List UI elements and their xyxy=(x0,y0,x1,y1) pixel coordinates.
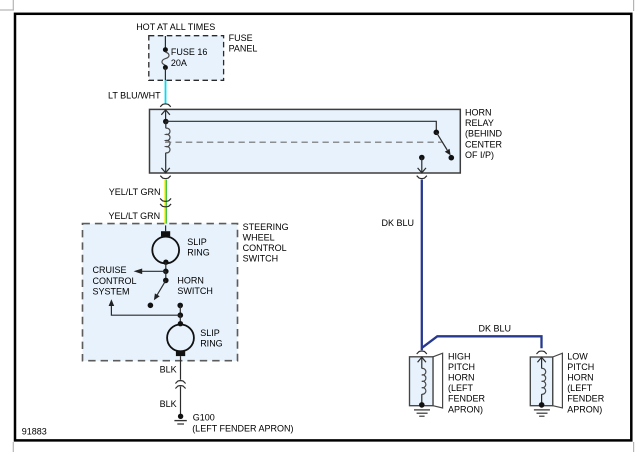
svg-text:LOW: LOW xyxy=(567,351,588,361)
low pitch horn coil xyxy=(542,368,546,394)
label HORN RELAY (BEHIND CENTER OF I/P) xyxy=(465,108,503,160)
inline connector C200 xyxy=(160,198,171,206)
svg-text:SWITCH: SWITCH xyxy=(243,254,279,264)
connector at low pitch horn (female) xyxy=(537,351,547,354)
svg-text:FUSE 16: FUSE 16 xyxy=(171,47,208,57)
relay switch pivot xyxy=(434,130,440,136)
low pitch horn body xyxy=(530,353,562,408)
wire to cruise control (arrow left) xyxy=(134,269,166,275)
svg-text:20A: 20A xyxy=(171,58,187,68)
svg-text:OF I/P): OF I/P) xyxy=(465,150,494,160)
svg-text:BLK: BLK xyxy=(160,399,177,409)
svg-text:DK BLU: DK BLU xyxy=(479,323,512,333)
svg-text:HIGH: HIGH xyxy=(448,351,471,361)
ground (high pitch horn) xyxy=(414,410,430,416)
svg-text:RING: RING xyxy=(200,338,223,348)
connector below relay coil (female) xyxy=(160,176,170,179)
high pitch horn body xyxy=(410,353,443,408)
relay switch blade xyxy=(436,132,450,155)
high pitch horn coil to ground xyxy=(421,394,423,403)
svg-text:PANEL: PANEL xyxy=(229,44,258,54)
svg-text:CRUISE: CRUISE xyxy=(93,265,127,275)
label FUSE PANEL xyxy=(229,33,258,54)
node below slip ring 1 xyxy=(163,260,168,265)
connector at relay pin (female, top) xyxy=(160,104,171,107)
svg-text:(LEFT: (LEFT xyxy=(567,383,593,393)
label SLIP RING (upper) xyxy=(187,237,210,258)
wire xyxy=(179,315,181,324)
steering wheel control switch box xyxy=(83,224,238,361)
svg-text:HORN: HORN xyxy=(567,373,594,383)
svg-text:APRON): APRON) xyxy=(567,404,602,414)
svg-text:RING: RING xyxy=(187,247,210,257)
relay coil xyxy=(165,122,167,129)
svg-text:YEL/LT GRN: YEL/LT GRN xyxy=(109,187,161,197)
label FUSE 16 20A xyxy=(171,47,208,68)
svg-text:HORN: HORN xyxy=(177,276,204,286)
node top of slip ring 2 xyxy=(178,321,183,326)
svg-text:BLK: BLK xyxy=(160,365,177,375)
wire xyxy=(165,271,167,280)
fuse panel box xyxy=(149,36,224,81)
svg-text:SWITCH: SWITCH xyxy=(177,286,213,296)
ground (low pitch horn) xyxy=(534,410,550,416)
svg-text:YEL/LT GRN: YEL/LT GRN xyxy=(109,211,161,221)
svg-text:FENDER: FENDER xyxy=(567,394,605,404)
svg-text:DK BLU: DK BLU xyxy=(382,218,415,228)
node relay common xyxy=(163,119,169,125)
horn switch blade xyxy=(154,280,166,300)
label CRUISE CONTROL SYSTEM xyxy=(93,265,137,296)
wire BLK (lower) xyxy=(180,387,182,415)
label HORN SWITCH xyxy=(177,276,213,297)
svg-text:CONTROL: CONTROL xyxy=(93,276,137,286)
low pitch horn ground node xyxy=(539,402,545,408)
svg-text:HORN: HORN xyxy=(465,108,492,118)
wire DK BLU (main vertical) xyxy=(421,180,423,351)
label STEERING WHEEL CONTROL SWITCH xyxy=(243,222,289,264)
slip ring 1 xyxy=(152,237,179,264)
svg-text:HOT AT ALL TIMES: HOT AT ALL TIMES xyxy=(136,22,215,32)
wire into slip ring xyxy=(165,225,167,231)
wire DK BLU branch to low pitch horn xyxy=(422,336,542,348)
svg-text:APRON): APRON) xyxy=(448,404,483,414)
inline connector in BLK wire xyxy=(175,381,185,389)
wire BLK (upper) xyxy=(180,356,182,380)
slip ring 1 contact xyxy=(161,231,170,236)
svg-text:PITCH: PITCH xyxy=(567,362,594,372)
label SLIP RING (lower) xyxy=(200,328,223,349)
relay switch contact xyxy=(449,155,455,161)
wire YEL/LT GRN xyxy=(165,180,166,225)
svg-text:91883: 91883 xyxy=(22,427,47,437)
low pitch horn coil to ground xyxy=(541,394,543,403)
wire xyxy=(165,262,167,271)
relay coil output arrow (male, to bottom edge) xyxy=(161,153,169,173)
svg-text:STEERING: STEERING xyxy=(243,222,289,232)
low pitch horn pin arrow xyxy=(537,357,545,368)
relay mechanical link (dashed) xyxy=(165,141,442,143)
slip ring 2 xyxy=(167,325,194,352)
high pitch horn pin arrow xyxy=(418,357,426,368)
svg-text:FUSE: FUSE xyxy=(229,33,253,43)
ground G100 xyxy=(174,414,186,424)
svg-text:PITCH: PITCH xyxy=(448,362,475,372)
connector at high pitch horn (female) xyxy=(417,351,427,354)
wire xyxy=(179,305,181,315)
relay output arrow (male, to bottom edge) xyxy=(418,158,426,173)
high pitch horn ground node xyxy=(419,402,425,408)
horn switch top contact xyxy=(163,278,169,284)
svg-text:(LEFT: (LEFT xyxy=(448,383,474,393)
svg-text:SYSTEM: SYSTEM xyxy=(93,286,130,296)
label LOW PITCH HORN (LEFT FENDER APRON) xyxy=(567,351,605,414)
svg-text:SLIP: SLIP xyxy=(187,237,207,247)
high pitch horn coil xyxy=(422,368,426,394)
connector below relay output (female) xyxy=(417,176,427,179)
svg-text:SLIP: SLIP xyxy=(200,328,220,338)
horn relay box xyxy=(150,109,461,173)
svg-text:LT BLU/WHT: LT BLU/WHT xyxy=(108,90,161,100)
slip ring 2 contact xyxy=(176,351,185,356)
svg-text:CONTROL: CONTROL xyxy=(243,243,287,253)
svg-text:RELAY: RELAY xyxy=(465,118,494,128)
wire LT BLU/WHT xyxy=(165,80,167,104)
svg-text:HORN: HORN xyxy=(448,373,475,383)
fuse F16 xyxy=(162,36,169,80)
svg-text:(BEHIND: (BEHIND xyxy=(465,129,503,139)
label HIGH PITCH HORN (LEFT FENDER APRON) xyxy=(448,351,486,414)
wire relay internal horizontal xyxy=(166,121,437,132)
horn switch right contact xyxy=(177,303,183,309)
node cruise branch xyxy=(178,312,184,318)
relay pin 1 arrow (male) xyxy=(161,110,170,122)
node cruise tap xyxy=(163,269,169,275)
svg-text:G100: G100 xyxy=(193,413,215,423)
svg-text:(LEFT FENDER APRON): (LEFT FENDER APRON) xyxy=(192,424,293,434)
svg-text:FENDER: FENDER xyxy=(448,394,486,404)
svg-text:CENTER: CENTER xyxy=(465,139,503,149)
svg-text:WHEEL: WHEEL xyxy=(243,232,275,242)
relay output terminal xyxy=(419,155,425,161)
wire cruise branch with up arrow xyxy=(109,299,181,315)
horn switch bottom contact xyxy=(148,303,154,309)
